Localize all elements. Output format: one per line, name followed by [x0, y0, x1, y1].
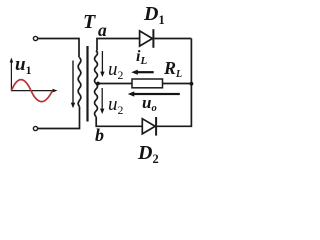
arrow uo voltage: [128, 91, 180, 96]
label u1: [15, 55, 31, 74]
u1 sine waveform: [11, 80, 52, 102]
arrow u2 lower: [100, 88, 104, 114]
label uo: [142, 94, 157, 112]
label u2 lower: [108, 95, 123, 114]
label T: [83, 12, 95, 32]
label iL: [136, 49, 147, 65]
u1 source plot axes: [11, 61, 54, 92]
primary winding of transformer T: [78, 58, 81, 107]
arrow u2 upper: [100, 51, 104, 77]
label D2: [138, 143, 159, 163]
terminal top-left: [33, 36, 37, 40]
junction center tap: [96, 82, 100, 86]
transformer core: [86, 46, 88, 122]
wire D1 cathode to right rail: [154, 38, 191, 40]
secondary winding of transformer T: [95, 51, 98, 117]
junction right rail / load: [190, 82, 194, 86]
diode D2: [142, 117, 156, 136]
wire primary bottom to bottom-left terminal: [38, 107, 80, 129]
wire node b: secondary bottom lead: [96, 117, 142, 127]
wire resistor to right rail: [163, 83, 192, 85]
arrow iL current: [131, 70, 154, 75]
label a: [98, 22, 107, 40]
wire center tap to resistor: [98, 83, 133, 85]
wire right rail: [157, 39, 191, 127]
label D1: [144, 4, 165, 24]
terminal bottom-left: [33, 126, 37, 130]
diode D1: [140, 29, 154, 48]
arrow u1 primary reference: [71, 61, 75, 109]
resistor RL: [132, 79, 163, 88]
label b: [95, 126, 104, 144]
label RL: [164, 59, 182, 77]
wire node a: secondary top lead: [97, 39, 140, 51]
label u2 upper: [108, 60, 123, 79]
wire top-left to primary top: [38, 39, 79, 58]
